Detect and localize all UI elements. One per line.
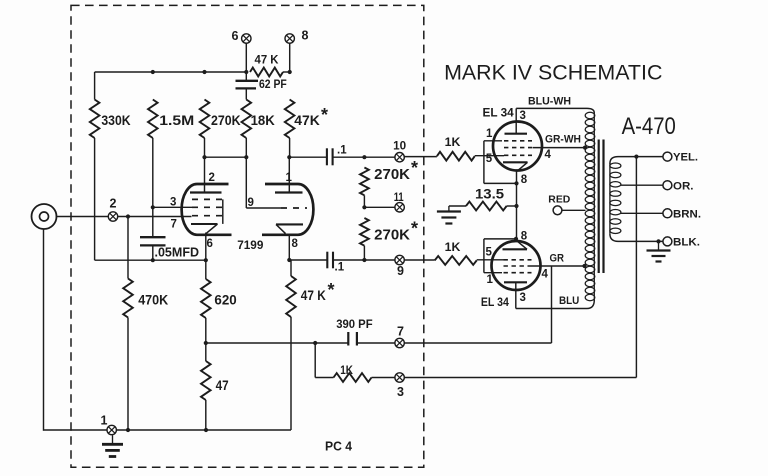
- label pin 3 upper: [520, 110, 526, 122]
- wire 470K top: [127, 217, 129, 279]
- capacitor .1 lower: [327, 252, 333, 269]
- wire 47K* bottom to triode plate node: [289, 138, 291, 157]
- svg-text:1K: 1K: [445, 135, 461, 149]
- label 390PF: [336, 319, 372, 331]
- resistor 470K: [123, 279, 133, 318]
- label 7199: [237, 238, 264, 252]
- node fb split: [313, 341, 317, 345]
- svg-text:1.5M: 1.5M: [159, 112, 194, 128]
- resistor 620: [201, 279, 211, 318]
- resistor 47K* (cathode load): [286, 276, 296, 317]
- svg-text:5: 5: [486, 247, 493, 259]
- wire 47 leads: [205, 343, 207, 430]
- node screen: [151, 205, 155, 209]
- wire terminal 11: [364, 206, 404, 208]
- svg-text:.1: .1: [335, 261, 345, 273]
- resistor 330K: [90, 100, 100, 139]
- transformer primary spine: [593, 113, 595, 300]
- svg-text:7: 7: [397, 325, 404, 339]
- svg-text:47 K: 47 K: [255, 53, 279, 67]
- ground symbol at terminal 1: [102, 435, 123, 456]
- terminal OR: [663, 181, 672, 190]
- label pin 5 upper: [486, 153, 493, 165]
- label pin 7: [171, 219, 177, 231]
- tube 7199 pentode envelope: [182, 184, 232, 235]
- svg-text:9: 9: [397, 264, 404, 278]
- tube 7199 triode envelope: [262, 184, 313, 235]
- node 270K* bottom: [362, 258, 366, 262]
- label RED: [548, 194, 570, 206]
- terminal 8: [285, 34, 294, 43]
- svg-text:1: 1: [487, 274, 494, 286]
- label pin 4 upper: [545, 149, 552, 161]
- svg-text:620: 620: [214, 292, 237, 308]
- terminal 11: [395, 203, 404, 212]
- svg-text:*: *: [411, 219, 418, 239]
- label pin 1 lower: [487, 274, 494, 286]
- resistor 270K: [200, 100, 210, 139]
- ground at BLK: [647, 241, 671, 261]
- EL34l plate: [504, 281, 527, 283]
- svg-text:7199: 7199: [237, 238, 264, 252]
- label 270K* upper: [374, 158, 418, 183]
- triode plate: [275, 191, 303, 193]
- tube EL34 upper envelope: [493, 122, 542, 171]
- resistor 270K* upper: [360, 168, 369, 196]
- label terminal 11: [394, 192, 404, 204]
- EL34u screen wire GR-WH: [533, 147, 586, 149]
- resistor 47K feedback: [250, 68, 283, 77]
- svg-text:18K: 18K: [251, 112, 275, 128]
- resistor 1.5M: [148, 100, 158, 139]
- label pin 9: [248, 197, 254, 209]
- transformer core: [599, 140, 604, 274]
- label 270K* lower: [374, 219, 418, 244]
- capacitor .1 upper: [327, 148, 333, 165]
- terminal 7: [395, 338, 404, 347]
- svg-text:1K: 1K: [340, 363, 353, 377]
- svg-text:EL 34: EL 34: [483, 106, 515, 120]
- label PC 4: [325, 438, 353, 453]
- svg-text:6: 6: [232, 29, 239, 43]
- wire 1K to terminal 3: [372, 377, 637, 379]
- label pin 8: [292, 238, 299, 250]
- node cathode 620: [204, 258, 208, 262]
- svg-text:3: 3: [520, 292, 526, 304]
- wire 1K to grid lower: [477, 259, 504, 261]
- node BLK ground: [656, 239, 660, 243]
- svg-text:13.5: 13.5: [475, 186, 505, 201]
- svg-text:BRN.: BRN.: [673, 208, 701, 220]
- label pin 8 lower: [521, 231, 528, 243]
- resistor 1K upper grid: [437, 152, 475, 161]
- wire 470K bottom: [127, 318, 129, 431]
- svg-text:8: 8: [302, 29, 309, 43]
- EL34u plate: [505, 133, 528, 135]
- svg-text:390 PF: 390 PF: [336, 319, 372, 331]
- label 18K: [251, 112, 275, 128]
- resistor 47: [201, 361, 211, 400]
- svg-text:1: 1: [101, 414, 108, 428]
- wire 47K right: [283, 71, 290, 73]
- label terminal 7: [397, 325, 404, 339]
- ground at 13.5: [437, 206, 461, 224]
- label EL 34 upper: [483, 106, 515, 120]
- wire 13.5 right: [507, 205, 517, 207]
- label terminal 10: [393, 141, 406, 153]
- label pin 3: [170, 197, 176, 209]
- EL34l g3 row: [484, 272, 532, 274]
- label terminal 6: [232, 29, 239, 43]
- svg-text:2: 2: [209, 172, 215, 184]
- wire terminal 7 riser: [551, 266, 553, 343]
- transformer secondary spine: [609, 163, 611, 234]
- label terminal 9: [397, 264, 404, 278]
- node .05 bottom: [151, 258, 155, 262]
- svg-text:GR: GR: [550, 253, 565, 265]
- node 270K* top: [362, 155, 366, 159]
- svg-text:47K: 47K: [294, 112, 320, 128]
- svg-text:3: 3: [170, 197, 176, 209]
- pentode cathode: [191, 224, 218, 234]
- label pin 1 upper: [486, 128, 493, 140]
- wire jack shield down to ground bus: [43, 229, 46, 430]
- svg-text:3: 3: [397, 385, 404, 399]
- node 47-bus: [204, 428, 208, 432]
- svg-text:8: 8: [521, 174, 528, 186]
- node cathode 13.5: [514, 204, 518, 208]
- input jack J1: [32, 204, 57, 229]
- label pin 1: [286, 172, 293, 184]
- EL34l screen wire GR: [532, 265, 585, 267]
- label 47K* lower: [301, 280, 335, 303]
- label 1.5M: [159, 112, 194, 128]
- svg-text:47: 47: [216, 377, 229, 393]
- svg-text:BLK.: BLK.: [673, 237, 700, 249]
- label BLU-WH: [528, 96, 571, 108]
- node g3-cathode upper: [514, 181, 518, 185]
- pin 6 lead: [205, 233, 207, 280]
- label 1K upper: [445, 135, 461, 149]
- node 1.5M-bus: [151, 70, 155, 74]
- wire terminal 8 down: [289, 43, 291, 72]
- label pin 3 lower: [520, 292, 526, 304]
- PC-4 board dashed outline: [71, 5, 424, 467]
- label terminal 2: [110, 197, 117, 211]
- secondary bottom corner: [610, 234, 618, 242]
- svg-text:BLU: BLU: [559, 295, 579, 307]
- capacitor 62PF: [236, 72, 259, 100]
- terminal BRN: [663, 209, 672, 218]
- transformer secondary winding: [610, 163, 621, 234]
- wire 1.5M bottom to screen node: [152, 138, 154, 237]
- pentode plate: [190, 191, 222, 193]
- node 18K bottom: [244, 155, 248, 159]
- label pin 6: [207, 238, 213, 250]
- EL34l g1 row: [504, 259, 532, 261]
- terminal YEL: [663, 152, 672, 161]
- wire BLU: [516, 300, 595, 309]
- pin 2 lead: [204, 157, 206, 192]
- pentode g2 row: [192, 206, 222, 208]
- wire BRN tap: [621, 212, 663, 214]
- svg-text:*: *: [321, 105, 328, 125]
- svg-text:1: 1: [486, 128, 493, 140]
- svg-text:270K: 270K: [211, 112, 241, 128]
- label YEL.: [673, 152, 698, 164]
- wire 1K to grid: [475, 155, 504, 157]
- label 13.5: [475, 186, 505, 201]
- label BRN.: [673, 208, 701, 220]
- svg-text:11: 11: [394, 192, 404, 204]
- pentode g3 bracket: [222, 199, 224, 224]
- label 47: [216, 377, 229, 393]
- EL34l cathode: [503, 241, 528, 249]
- node 470K-bus: [126, 428, 130, 432]
- svg-text:PC 4: PC 4: [325, 438, 353, 453]
- EL34u g3 row: [484, 140, 532, 142]
- node pentode plate: [202, 155, 206, 159]
- triode cathode: [276, 224, 303, 233]
- wire 620 bottom: [205, 318, 207, 343]
- label .1 lower: [335, 261, 345, 273]
- resistor 270K* lower: [360, 218, 369, 246]
- label 270K: [211, 112, 241, 128]
- label terminal 1: [101, 414, 108, 428]
- wire fb 1K branch: [315, 343, 333, 378]
- node cathode out: [287, 258, 291, 262]
- terminal 3: [395, 373, 404, 382]
- capacitor 390PF: [348, 332, 357, 346]
- wire 330K top: [94, 72, 96, 100]
- label 330K: [101, 112, 130, 128]
- resistor 47K* (pentode): [285, 100, 295, 139]
- label EL 34 lower: [481, 295, 509, 309]
- svg-text:*: *: [411, 158, 418, 178]
- label .05MFD: [155, 244, 200, 259]
- svg-text:EL 34: EL 34: [481, 295, 509, 309]
- pentode g1 row: [192, 215, 222, 217]
- svg-text:RED: RED: [548, 194, 570, 206]
- pin 3 lead lower: [515, 282, 517, 308]
- label 47 K: [255, 53, 279, 67]
- node 620-47: [204, 341, 208, 345]
- svg-text:270K: 270K: [374, 167, 410, 183]
- label terminal 8: [302, 29, 309, 43]
- EL34u cathode: [503, 162, 528, 171]
- terminal 10: [395, 153, 404, 162]
- node 270K-bus: [202, 70, 206, 74]
- svg-text:8: 8: [292, 238, 299, 250]
- svg-text:.1: .1: [337, 145, 347, 157]
- wire 270K* upper bottom: [363, 195, 365, 207]
- label 47K*: [294, 105, 328, 128]
- node feedback takeoff: [634, 155, 638, 159]
- EL34u g2 row: [504, 147, 532, 149]
- cathode bus vertical: [516, 171, 518, 241]
- node triode plate: [287, 155, 291, 159]
- svg-text:10: 10: [393, 141, 406, 153]
- pin 3 lead upper: [515, 108, 517, 133]
- wire RED tap: [562, 209, 586, 211]
- label 62PF: [259, 79, 287, 91]
- pin 3 screen wire: [153, 206, 192, 208]
- wire jack to terminal 2 and pentode grid: [56, 216, 192, 218]
- svg-text:1K: 1K: [445, 240, 461, 254]
- pin 8 lead: [288, 235, 290, 260]
- label OR.: [673, 180, 694, 192]
- wire BLU-WH: [516, 108, 594, 113]
- node 270K* mid: [362, 205, 366, 209]
- svg-text:1: 1: [286, 172, 293, 184]
- wire terminal10 to 1K: [404, 156, 437, 158]
- resistor 13.5: [466, 202, 507, 211]
- triode grid wire: [246, 157, 281, 208]
- secondary top corner: [610, 157, 618, 164]
- label 620: [214, 292, 237, 308]
- label GR: [550, 253, 565, 265]
- node 18K-bus: [244, 70, 248, 74]
- svg-text:2: 2: [110, 197, 117, 211]
- svg-text:330K: 330K: [101, 112, 130, 128]
- wire 390PF to terminal 7: [357, 342, 552, 344]
- svg-text:47 K: 47 K: [301, 287, 326, 303]
- terminal BLK: [663, 237, 672, 246]
- label 1K feedback: [340, 363, 353, 377]
- RED tap circle: [553, 206, 562, 215]
- svg-text:A-470: A-470: [622, 113, 676, 140]
- wire cap to terminal 10: [333, 156, 404, 158]
- svg-text:9: 9: [248, 197, 254, 209]
- svg-text:4: 4: [542, 269, 549, 281]
- svg-text:8: 8: [521, 231, 528, 243]
- node g3-cathode lower: [514, 237, 518, 241]
- svg-text:GR-WH: GR-WH: [545, 134, 581, 146]
- wire 270K bottom to plate node: [204, 138, 206, 157]
- svg-text:BLU-WH: BLU-WH: [528, 96, 571, 108]
- wire 330K bottom to cathode line: [94, 138, 96, 260]
- svg-text:YEL.: YEL.: [673, 152, 698, 164]
- wire terminal 6 down: [245, 43, 247, 72]
- EL34l bracket: [484, 239, 516, 273]
- svg-text:7: 7: [171, 219, 177, 231]
- label pin 8 upper: [521, 174, 528, 186]
- terminal 9: [395, 255, 404, 264]
- label terminal 3: [397, 385, 404, 399]
- wire 18K bottom to plate node: [245, 138, 247, 157]
- label .1 upper: [337, 145, 347, 157]
- svg-text:4: 4: [545, 149, 552, 161]
- wire terminal9 to 1K lower: [404, 259, 435, 261]
- wire 47K* cathode leads: [290, 260, 292, 430]
- cathode return wire: [95, 259, 206, 261]
- label BLK.: [673, 237, 700, 249]
- label 470K: [138, 292, 168, 308]
- svg-text:.05MFD: .05MFD: [155, 244, 200, 259]
- wire feedback riser: [635, 157, 637, 378]
- EL34u bracket: [484, 141, 517, 184]
- label 1K lower: [445, 240, 461, 254]
- ground bus wire: [44, 429, 292, 431]
- label GR-WH: [545, 134, 581, 146]
- terminal 2: [108, 212, 117, 221]
- svg-text:470K: 470K: [138, 292, 168, 308]
- wire OR tap: [621, 184, 663, 186]
- wire plate to cap: [289, 156, 327, 158]
- pentode g3 row: [192, 198, 222, 200]
- label BLU: [559, 295, 579, 307]
- node screen tap lower: [582, 264, 586, 268]
- wire plate to grid link: [205, 156, 247, 158]
- resistor 18K: [242, 100, 252, 139]
- triode grid row: [281, 207, 307, 209]
- wire 270K* lower bottom: [363, 246, 365, 260]
- EL34l g2 row: [504, 265, 532, 267]
- svg-text:62 PF: 62 PF: [259, 79, 287, 91]
- wire cathode node to feedback: [206, 342, 348, 344]
- svg-text:OR.: OR.: [673, 180, 694, 192]
- resistor 1K feedback: [334, 373, 372, 382]
- wire 13.5 left: [449, 205, 466, 207]
- wire cathode to cap: [289, 259, 327, 261]
- svg-text:6: 6: [207, 238, 213, 250]
- label pin 5 lower: [486, 247, 493, 259]
- title MARK IV SCHEMATIC: [444, 61, 662, 85]
- svg-text:270K: 270K: [374, 227, 410, 243]
- resistor 1K lower grid: [435, 256, 477, 265]
- node screen tap upper: [583, 146, 587, 150]
- terminal 1: [107, 425, 116, 434]
- transformer primary winding: [585, 112, 595, 300]
- tube EL34 lower envelope: [492, 241, 541, 290]
- wire cap to terminal 9: [333, 259, 404, 261]
- svg-text:5: 5: [486, 153, 493, 165]
- pin 1 lead: [288, 157, 290, 192]
- EL34u g1 row: [504, 154, 532, 156]
- wire BLK tap: [618, 240, 663, 242]
- label A-470: [622, 113, 676, 140]
- node 47K-47K*: [288, 70, 292, 74]
- label pin 4 lower: [542, 269, 549, 281]
- label pin 2: [209, 172, 215, 184]
- wire YEL tap: [618, 156, 663, 158]
- terminal 6: [242, 34, 251, 43]
- capacitor .05MFD: [140, 237, 166, 260]
- svg-text:*: *: [328, 280, 335, 300]
- B+ bus wire: [95, 71, 247, 73]
- svg-text:MARK IV SCHEMATIC: MARK IV SCHEMATIC: [444, 61, 662, 85]
- svg-text:3: 3: [520, 110, 526, 122]
- node input-470K: [126, 214, 130, 218]
